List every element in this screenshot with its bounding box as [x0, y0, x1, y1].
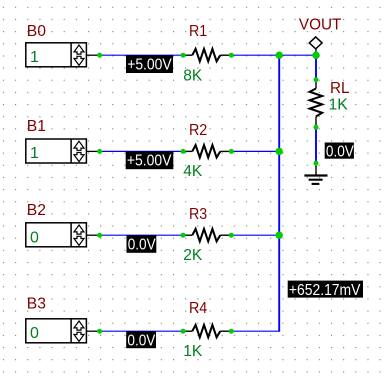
svg-text:B1: B1: [27, 118, 46, 135]
junction VOUT node: [312, 52, 319, 59]
wire R4 output to bus: [231, 330, 280, 332]
value 8K of R1: [183, 68, 202, 85]
terminal VOUT (diamond): [309, 37, 322, 55]
logic input B3: [26, 319, 100, 343]
label R4: [189, 300, 207, 317]
svg-text:1K: 1K: [183, 343, 202, 360]
value 1K of RL: [329, 96, 349, 113]
probe voltage B1 net: [126, 151, 174, 169]
node R2 pin 2: [229, 149, 234, 154]
probe voltage B3 net: [126, 331, 156, 349]
svg-text:2K: 2K: [183, 247, 202, 264]
logic input B1: [26, 139, 100, 163]
svg-text:RL: RL: [330, 80, 350, 97]
svg-text:8K: 8K: [183, 68, 202, 85]
node RL pin 1: [314, 77, 319, 82]
node ground: [314, 161, 319, 166]
svg-text:1K: 1K: [329, 96, 349, 113]
node B2 output pin: [97, 233, 102, 238]
node R1 pin 2: [229, 53, 234, 58]
svg-text:0: 0: [30, 230, 39, 247]
junction bus / R2 row: [276, 148, 283, 155]
svg-text:B2: B2: [27, 202, 46, 219]
svg-text:VOUT: VOUT: [299, 16, 342, 33]
wire vertical summing bus: [278, 55, 280, 331]
node R3 pin 2: [229, 233, 234, 238]
svg-text:R4: R4: [189, 300, 207, 317]
label R1: [189, 23, 207, 40]
svg-text:R1: R1: [189, 23, 207, 40]
svg-text:4K: 4K: [183, 163, 202, 180]
wire B2 output to R3: [100, 234, 184, 236]
svg-text:1: 1: [30, 49, 39, 66]
wire VOUT node down to RL: [315, 55, 317, 79]
node B1 output pin: [97, 149, 102, 154]
wire B3 output to R4: [100, 330, 184, 332]
svg-text:+5.00V: +5.00V: [127, 56, 172, 73]
svg-text:0.0V: 0.0V: [127, 332, 155, 349]
probe voltage B0 net: [126, 55, 173, 73]
resistor R1: [183, 49, 231, 61]
label RL: [330, 80, 350, 97]
node B0 output pin: [97, 53, 102, 58]
svg-text:+5.00V: +5.00V: [127, 153, 172, 170]
svg-text:B0: B0: [27, 23, 46, 40]
label B3: [27, 295, 46, 312]
node R3 pin 1: [181, 233, 186, 238]
label B0: [27, 23, 46, 40]
node R4 pin 2: [229, 329, 234, 334]
probe voltage B2 net: [127, 235, 157, 253]
resistor R4: [183, 325, 231, 337]
label R2: [189, 122, 207, 139]
label VOUT: [299, 16, 342, 33]
node B3 output pin: [97, 329, 102, 334]
node R1 pin 1: [181, 53, 186, 58]
node R2 pin 1: [181, 149, 186, 154]
probe voltage ground net 0.0V: [325, 143, 354, 161]
wire B0 output to R1: [100, 54, 184, 56]
svg-text:R2: R2: [189, 122, 207, 139]
resistor RL: [310, 80, 322, 128]
label B2: [27, 202, 46, 219]
svg-text:+652.17mV: +652.17mV: [289, 282, 361, 299]
svg-text:1: 1: [30, 145, 39, 162]
value 4K of R2: [183, 163, 202, 180]
label B1: [27, 118, 46, 135]
resistor R3: [183, 229, 231, 241]
junction bus / top wire: [276, 52, 283, 59]
node RL pin 2: [314, 125, 319, 130]
value 2K of R3: [183, 247, 202, 264]
ground: [304, 163, 327, 184]
svg-text:B3: B3: [27, 295, 46, 312]
wire R3 output to bus: [231, 234, 280, 236]
node R4 pin 1: [181, 329, 186, 334]
logic input B2: [26, 223, 100, 247]
wire B1 output to R2: [100, 150, 184, 152]
svg-text:0: 0: [30, 325, 39, 342]
label R3: [189, 206, 207, 223]
wire R2 output to bus: [231, 150, 280, 152]
logic input B0: [26, 43, 100, 67]
resistor R2: [183, 145, 231, 157]
svg-text:0.0V: 0.0V: [128, 236, 156, 253]
wire RL to ground: [315, 127, 317, 163]
value 1K of R4: [183, 343, 202, 360]
svg-text:R3: R3: [189, 206, 207, 223]
wire top bus: R1 output to VOUT node: [231, 54, 316, 56]
probe voltage VOUT +652.17mV: [288, 281, 363, 299]
junction bus / R3 row: [276, 232, 283, 239]
svg-text:0.0V: 0.0V: [326, 144, 354, 161]
